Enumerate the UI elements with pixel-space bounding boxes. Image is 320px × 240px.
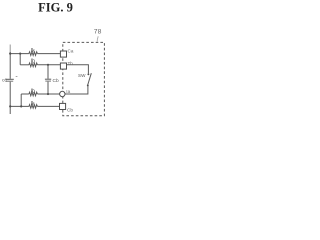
svg-text:Ib: Ib: [31, 58, 35, 64]
svg-text:Ia: Ia: [66, 89, 70, 94]
svg-text:Ca: Ca: [68, 48, 74, 53]
svg-text:Tb: Tb: [68, 61, 74, 66]
svg-text:o1: o1: [2, 78, 8, 84]
svg-text:Ik: Ik: [31, 101, 35, 107]
svg-text:Ik: Ik: [31, 48, 35, 54]
svg-text:78: 78: [94, 29, 102, 36]
svg-text:FIG. 9: FIG. 9: [38, 0, 73, 14]
svg-text:SW: SW: [78, 73, 86, 78]
svg-text:Cb: Cb: [53, 78, 59, 84]
svg-text:Cb: Cb: [67, 107, 73, 112]
svg-text:Ib: Ib: [31, 89, 35, 95]
